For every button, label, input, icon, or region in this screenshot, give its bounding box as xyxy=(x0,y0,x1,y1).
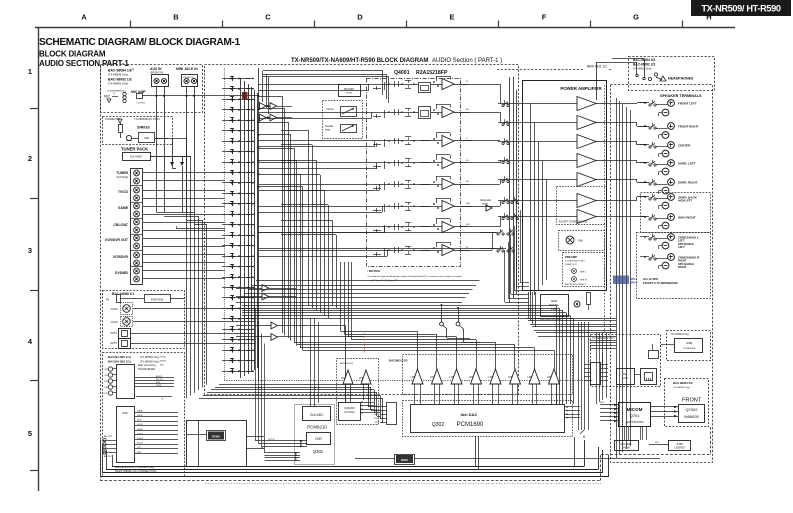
selector cell row 10 xyxy=(222,172,254,174)
selector cell row 6 xyxy=(222,130,254,132)
svg-text:EXCEPT TX-NR509/NA609: EXCEPT TX-NR509/NA609 xyxy=(559,221,588,224)
net wires xyxy=(590,340,616,342)
op-amp LPF ch3 xyxy=(451,369,462,384)
svg-text:SIRIUS: SIRIUS xyxy=(137,126,150,130)
svg-text:FE: FE xyxy=(106,298,110,302)
svg-text:5: 5 xyxy=(28,429,32,438)
power amp surround back dashed group xyxy=(557,187,607,225)
verticals into ADC xyxy=(310,318,312,407)
HDMI dashed box BAC 94-090 xyxy=(103,353,185,477)
ADC input wire rows xyxy=(255,309,257,442)
svg-text:DATA: DATA xyxy=(137,409,143,412)
svg-text:OPT2: OPT2 xyxy=(110,341,117,345)
power amp channel 3 xyxy=(577,135,596,149)
volume pot 2 xyxy=(341,125,357,133)
selector ID tag xyxy=(242,92,248,99)
buffer op-amps record out xyxy=(260,103,267,110)
op-amp Q4001 ch6 xyxy=(442,201,454,212)
svg-text:DSD1: DSD1 xyxy=(137,429,144,431)
svg-text:COAX: COAX xyxy=(111,307,119,311)
svg-text:F: F xyxy=(542,13,547,22)
power amplifier block xyxy=(523,81,607,291)
power amp channel 7 xyxy=(577,210,596,224)
op-amp Q4001 ch3 xyxy=(442,136,454,147)
BMF power box right dashed edge xyxy=(604,85,606,332)
svg-text:RST: RST xyxy=(137,452,142,454)
svg-text:TX-NR509/ HT-R590: TX-NR509/ HT-R590 xyxy=(701,4,781,14)
selector cell row 28 xyxy=(222,360,254,362)
svg-text:2ch x2 SPK: 2ch x2 SPK xyxy=(643,277,658,281)
svg-text:VOLUME: VOLUME xyxy=(621,442,632,446)
svg-text:MICOM: MICOM xyxy=(627,407,643,412)
micom left wires xyxy=(600,404,618,406)
svg-text:HIGH RIGHT: HIGH RIGHT xyxy=(678,216,696,220)
DAC right connector wires xyxy=(565,406,580,408)
svg-text:LED/KEY: LED/KEY xyxy=(675,446,686,450)
svg-text:TX-NR509/609 ONLY: TX-NR509/609 ONLY xyxy=(592,337,615,340)
selector cell row 21 xyxy=(222,287,254,289)
svg-text:Q7002: Q7002 xyxy=(685,407,698,412)
speaker feed wires xyxy=(607,103,637,105)
crystal box xyxy=(208,432,224,440)
op-amp LPF ch2 xyxy=(432,369,443,384)
secondary staircase lines into Q4001 xyxy=(259,90,370,92)
selector to Q4001 signal lines xyxy=(259,84,419,86)
svg-text:1/3: 1/3 xyxy=(130,68,135,72)
wires DAC to micom bus xyxy=(578,322,580,430)
selector cell row 7 xyxy=(222,141,254,143)
wire bus centre staircase second group xyxy=(308,130,310,306)
svg-text:AUDIO: AUDIO xyxy=(156,375,163,378)
speaker terminal SURR. LEFT xyxy=(668,160,675,167)
2ch ADC box xyxy=(303,407,331,421)
svg-text:REMO: REMO xyxy=(401,459,408,462)
volume pot 1 xyxy=(341,107,357,117)
svg-text:BAC(98084 1/4) (TX-NR509 Only): BAC(98084 1/4) (TX-NR509 Only) xyxy=(115,465,154,469)
op-amp Q4001 ch8 xyxy=(442,245,454,256)
svg-text:(Not Work): (Not Work) xyxy=(116,176,128,179)
op-amp LPF ch6 xyxy=(510,369,521,384)
input jacks DVD/BD xyxy=(134,268,140,274)
IC Q4001 R2A15218FP volume/selector xyxy=(367,79,461,267)
svg-text:PCM1690: PCM1690 xyxy=(457,422,484,428)
input selector switch matrix Q4001 input side xyxy=(224,68,226,380)
svg-text:MINI JACK IN: MINI JACK IN xyxy=(176,67,198,71)
vertical bundle left of selector feeding bottom bus xyxy=(186,138,188,398)
svg-text:KNOB: KNOB xyxy=(622,446,630,450)
svg-text:COAX: COAX xyxy=(111,320,119,324)
op-amp LPF zone L xyxy=(343,370,353,384)
input jacks TUNER xyxy=(134,170,140,176)
svg-text:AUDIO SECTION PART-1: AUDIO SECTION PART-1 xyxy=(39,59,129,68)
selector cell row 15 xyxy=(222,224,254,226)
svg-text:μPD70F3766: μPD70F3766 xyxy=(626,420,644,424)
outer dashed box left section xyxy=(100,65,102,481)
right vertical bus xyxy=(616,98,618,458)
optical digital jacks xyxy=(119,329,131,339)
input connector box BAC-98084 xyxy=(101,65,203,113)
svg-text:EAJ-9607: EAJ-9607 xyxy=(130,155,143,159)
antenna xyxy=(118,119,122,123)
svg-text:SURR. RIGHT: SURR. RIGHT xyxy=(678,181,698,185)
svg-text:M66005: M66005 xyxy=(684,414,699,419)
svg-text:BCK: BCK xyxy=(156,382,161,384)
selector cell row 24 xyxy=(222,318,254,320)
vertical bus right of switches xyxy=(509,77,511,302)
svg-text:SPEAKER TERMINALS: SPEAKER TERMINALS xyxy=(660,94,702,98)
output mute switches xyxy=(461,84,468,86)
zone long feed lines xyxy=(236,302,462,304)
wires to headphones xyxy=(612,58,644,60)
svg-text:PRE R: PRE R xyxy=(580,280,587,282)
selector cell row 3 xyxy=(222,99,254,101)
svg-text:TUNER: TUNER xyxy=(116,171,128,175)
speaker terminal FRONT RIGHT xyxy=(668,123,675,130)
wire bus bottom bundle B3 xyxy=(219,384,368,386)
svg-text:EVENT/DB: EVENT/DB xyxy=(151,299,163,302)
svg-text:ARC: ARC xyxy=(160,364,165,367)
svg-text:(TX-NR509 Only): (TX-NR509 Only) xyxy=(673,387,690,389)
svg-text:VCR/DVR: VCR/DVR xyxy=(113,255,129,259)
svg-text:AUX IN: AUX IN xyxy=(150,67,162,71)
svg-text:TUNER PACK: TUNER PACK xyxy=(121,147,148,152)
svg-text:GAME: GAME xyxy=(118,206,129,210)
PCM9210 dashed box xyxy=(295,405,335,465)
DAC left connector xyxy=(387,403,397,425)
zone record switches xyxy=(440,322,444,326)
svg-text:D: D xyxy=(357,13,363,22)
selector cell row 18 xyxy=(222,256,254,258)
svg-text:DIGITAL: DIGITAL xyxy=(549,303,559,307)
8ch DAC dashed box xyxy=(403,355,573,395)
selector cell row 23 xyxy=(222,308,254,310)
svg-text:R2A15218FP: R2A15218FP xyxy=(416,70,448,76)
svg-text:L/R 2/0: L/R 2/0 xyxy=(156,379,163,381)
headphones jack box xyxy=(629,57,715,91)
svg-text:SIR: SIR xyxy=(144,136,149,140)
dashed bus line bottom centre xyxy=(224,380,593,382)
standby led box xyxy=(669,441,691,451)
zone select switches lower xyxy=(497,233,499,235)
svg-text:G: G xyxy=(633,13,639,22)
svg-text:CONDENSER MIC: CONDENSER MIC xyxy=(107,91,126,93)
svg-text:BAC-94088 1/1: BAC-94088 1/1 xyxy=(112,292,134,296)
svg-text:OUTPUT: OUTPUT xyxy=(137,103,147,105)
svg-text:RIGHT: RIGHT xyxy=(678,265,687,269)
svg-text:(TX-NR509 Only): (TX-NR509 Only) xyxy=(671,334,689,336)
svg-text:FRONT RIGHT: FRONT RIGHT xyxy=(678,125,699,129)
svg-text:2ch ADC: 2ch ADC xyxy=(310,413,324,417)
DSP block connector xyxy=(117,407,135,463)
svg-text:(TX-NR509 Only): (TX-NR509 Only) xyxy=(108,82,128,86)
svg-text:HDMI1: HDMI1 xyxy=(160,357,167,359)
svg-text:TRANSCEIVER: TRANSCEIVER xyxy=(138,368,155,371)
input jacks GAME xyxy=(134,203,140,209)
svg-text:Center: Center xyxy=(326,107,334,111)
svg-text:Q4001: Q4001 xyxy=(394,70,410,76)
DIR box xyxy=(307,433,331,445)
front display box xyxy=(679,405,705,423)
micom bottom wires xyxy=(624,427,626,440)
svg-text:LRCK: LRCK xyxy=(156,385,162,387)
selector cell row 12 xyxy=(222,193,254,195)
svg-text:LEVEL: LEVEL xyxy=(346,93,354,95)
svg-text:VCR/DVR OUT: VCR/DVR OUT xyxy=(105,238,129,242)
2ch DAC pin rows xyxy=(360,402,374,404)
svg-text:LPF: LPF xyxy=(547,375,552,379)
2ch DAC Q304/Q305 dashed box xyxy=(337,359,379,425)
selector cell row 9 xyxy=(222,162,254,164)
svg-text:LEFT: LEFT xyxy=(678,245,685,249)
svg-text:B: B xyxy=(173,13,179,22)
selector cell row 13 xyxy=(222,203,254,205)
svg-text:DSD3: DSD3 xyxy=(137,438,144,440)
svg-text:IF AMP OUT: IF AMP OUT xyxy=(565,263,577,266)
svg-text:BCK: BCK xyxy=(137,420,142,422)
svg-text:BAC-98082 1/3: BAC-98082 1/3 xyxy=(108,78,132,82)
selector cell row 8 xyxy=(222,151,254,153)
svg-text:bass: bass xyxy=(325,128,331,132)
svg-text:Q304/Q5: Q304/Q5 xyxy=(344,406,355,410)
tuner pack wires xyxy=(172,138,174,168)
speaker terminal SURR. RIGHT xyxy=(668,179,675,186)
svg-text:2: 2 xyxy=(28,154,32,163)
svg-text:TX-NR509/A: TX-NR509/A xyxy=(683,347,696,350)
svg-text:PRE L: PRE L xyxy=(580,272,587,274)
coax digital jacks xyxy=(121,303,133,315)
svg-text:Net: Net xyxy=(623,372,627,376)
selector cell row 20 xyxy=(222,277,254,279)
dashed box bottom right jog xyxy=(600,455,602,481)
svg-text:BMF-9811 1/1: BMF-9811 1/1 xyxy=(587,65,607,69)
HDMI connector block xyxy=(117,365,135,399)
svg-text:TX-NR509/609 ONLY: TX-NR509/609 ONLY xyxy=(565,261,586,263)
svg-text:DVD/BD: DVD/BD xyxy=(115,271,129,275)
bus from speaker area down xyxy=(596,332,598,404)
input jacks VCR/DVR OUT xyxy=(134,235,140,241)
speaker terminal HIGH RIGHT xyxy=(668,214,675,221)
svg-text:BAC(94-092 1/1): BAC(94-092 1/1) xyxy=(108,360,131,364)
svg-text:E: E xyxy=(449,13,454,22)
svg-text:(FRONT R): (FRONT R) xyxy=(150,71,163,75)
svg-text:STBY: STBY xyxy=(677,442,684,446)
svg-text:LRCK: LRCK xyxy=(137,415,143,417)
svg-text:USB: USB xyxy=(686,341,692,345)
svg-text:AMP/: AMP/ xyxy=(551,299,558,303)
svg-text:A: A xyxy=(81,13,87,22)
border left rule xyxy=(38,28,40,492)
selector cell row 1 xyxy=(222,78,254,80)
outer dashed box centre section xyxy=(205,65,519,395)
wires dsp to adc xyxy=(246,436,264,438)
FRONT display dashed box xyxy=(665,379,709,427)
headphone level box xyxy=(339,85,361,97)
svg-text:LPF: LPF xyxy=(450,375,455,379)
svg-text:AB CNT: AB CNT xyxy=(104,435,113,438)
digital audio connector block xyxy=(591,363,601,385)
svg-text:(TX-NR509 Only): (TX-NR509 Only) xyxy=(108,73,128,77)
svg-text:MCLK: MCLK xyxy=(137,443,144,445)
svg-text:Q701: Q701 xyxy=(630,413,641,418)
grid ticks top xyxy=(130,21,132,29)
selector cell row 5 xyxy=(222,120,254,122)
svg-text:C: C xyxy=(265,13,271,22)
svg-text:KEY: KEY xyxy=(600,402,605,404)
selector cell row 22 xyxy=(222,297,254,299)
USB dashed box xyxy=(667,331,711,361)
buffer op-amps record pair upper xyxy=(262,285,269,292)
svg-text:PCM9210: PCM9210 xyxy=(307,425,327,430)
svg-text:SURR. LEFT: SURR. LEFT xyxy=(678,162,696,166)
remote sensor box 2 xyxy=(396,455,413,463)
svg-text:Double: Double xyxy=(325,124,334,128)
zone switches double xyxy=(502,201,504,203)
svg-text:OPT1: OPT1 xyxy=(110,331,117,335)
svg-text:1: 1 xyxy=(28,67,32,76)
op-amp Q4001 ch5 xyxy=(442,179,454,190)
svg-text:BLOCK DIAGRAM: BLOCK DIAGRAM xyxy=(39,50,106,59)
svg-text:AUDIO Section ( PART-1 ): AUDIO Section ( PART-1 ) xyxy=(432,58,502,64)
zone2 dashed subgroup xyxy=(637,233,711,299)
svg-text:HDMI2: HDMI2 xyxy=(160,361,167,363)
bus labels blue xyxy=(613,276,629,285)
svg-text:SPK B: SPK B xyxy=(630,282,638,285)
svg-text:LPF: LPF xyxy=(411,375,416,379)
svg-text:• Literally the edge and blind: • Literally the edge and blindesign sign… xyxy=(367,275,462,278)
power amp internal verticals xyxy=(530,104,532,296)
wire bus centre-left staircase xyxy=(282,96,284,333)
selector cell row 14 xyxy=(222,214,254,216)
svg-text:(TX-NR509 Only): (TX-NR509 Only) xyxy=(140,356,159,359)
svg-text:OPT IN: OPT IN xyxy=(268,439,275,441)
power amp channel 6 xyxy=(577,194,596,208)
speaker terminal ZONE2/HIGH L xyxy=(668,234,675,241)
DAC PCM1690 box xyxy=(411,405,565,433)
DAC ground wires to bottom bus xyxy=(475,436,477,467)
selector cell row 25 xyxy=(222,329,254,331)
bass management switch column xyxy=(502,104,504,106)
svg-text:BAC(94-090 1/1): BAC(94-090 1/1) xyxy=(108,355,131,359)
digital input box BAC-94088 xyxy=(103,291,185,349)
bus bend under Q4001 xyxy=(505,302,529,304)
Q4001 internal resistor ticks xyxy=(373,88,381,90)
svg-text:BAC/936 6(2): BAC/936 6(2) xyxy=(340,362,354,365)
2ch DAC box xyxy=(339,403,361,421)
op-amp LPF ch1 xyxy=(412,369,423,384)
svg-text:Q301: Q301 xyxy=(313,449,324,454)
svg-text:LPF: LPF xyxy=(469,375,474,379)
BMF-9811 dashed header xyxy=(497,69,584,71)
selector cell row 19 xyxy=(222,266,254,268)
svg-text:SCHEMATIC DIAGRAM/ BLOCK DIAGR: SCHEMATIC DIAGRAM/ BLOCK DIAGRAM-1 xyxy=(39,37,241,48)
volume cell 1 xyxy=(419,83,431,93)
svg-text:LPF: LPF xyxy=(508,375,513,379)
op-amp Q4001 ch1 xyxy=(442,79,454,90)
svg-text:USB: USB xyxy=(622,376,628,380)
svg-text:BAC/893 6 2/2: BAC/893 6 2/2 xyxy=(389,359,408,363)
op-amp LPF ch4 xyxy=(471,369,482,384)
SIRIUS module box xyxy=(103,117,173,145)
speaker terminals dashed box xyxy=(611,85,713,463)
MICOM box xyxy=(619,403,651,427)
svg-text:Bass processing: Bass processing xyxy=(138,364,156,367)
svg-text:SPI: SPI xyxy=(655,442,659,444)
AC inlet box xyxy=(541,295,569,317)
page title block xyxy=(691,0,791,16)
svg-text:PREAMP: PREAMP xyxy=(565,255,577,259)
svg-text:DIR: DIR xyxy=(315,437,322,441)
remote event box xyxy=(145,295,171,303)
input jacks TV/CD xyxy=(134,187,140,193)
micom to front wires xyxy=(651,406,678,408)
jack sirius xyxy=(126,135,131,140)
svg-text:• NOTICE: • NOTICE xyxy=(367,269,380,273)
selector cell row 27 xyxy=(222,350,254,352)
svg-text:SW: SW xyxy=(578,239,583,243)
selector cell row 17 xyxy=(222,245,254,247)
svg-text:TX-NR509/TX-NA609/HT-R590 BLOC: TX-NR509/TX-NA609/HT-R590 BLOCK DIAGRAM xyxy=(291,58,428,64)
headphone jack xyxy=(648,77,651,80)
border top rule xyxy=(35,27,735,29)
svg-text:PWR: PWR xyxy=(551,307,557,311)
svg-text:LPF: LPF xyxy=(430,375,435,379)
svg-text:TV/CD: TV/CD xyxy=(118,190,129,194)
record out top lines xyxy=(263,70,383,72)
svg-text:FR: FR xyxy=(466,109,469,111)
NET module box xyxy=(617,369,635,385)
input jacks VCR/DVR xyxy=(134,252,140,258)
op-amp Q4001 ch7 xyxy=(442,222,454,233)
analog input jack strip xyxy=(131,169,143,285)
svg-text:CBL/SAT: CBL/SAT xyxy=(114,223,129,227)
input jacks CBL/SAT xyxy=(134,219,140,225)
wire bus mid bundle B1 xyxy=(242,305,556,307)
power amp channel 1 xyxy=(577,97,596,111)
wire bus LPF feed bundle B2 xyxy=(340,262,342,332)
resistor sirius xyxy=(119,125,123,133)
svg-text:Q302: Q302 xyxy=(432,422,444,428)
diode arrows xyxy=(170,162,174,166)
op-amp LPF ch7 xyxy=(529,369,540,384)
USB board box xyxy=(675,339,703,353)
preamp out box xyxy=(563,253,605,287)
svg-text:5: 5 xyxy=(583,435,585,439)
svg-text:DSD2: DSD2 xyxy=(137,433,144,435)
svg-text:FRONT LEFT: FRONT LEFT xyxy=(678,102,697,106)
buffer op-amps zone line out xyxy=(271,322,278,329)
SIR tuner box xyxy=(139,133,155,143)
svg-text:3: 3 xyxy=(28,246,32,255)
aux input vertical wires xyxy=(156,87,158,213)
svg-text:DSP: DSP xyxy=(122,411,128,415)
svg-text:HIGH LEFT: HIGH LEFT xyxy=(678,199,693,203)
svg-text:2ch DAC: 2ch DAC xyxy=(344,410,355,414)
svg-text:BAC-98084 1/3: BAC-98084 1/3 xyxy=(108,69,132,73)
ethernet jack xyxy=(641,369,657,385)
svg-text:HEADPHONES: HEADPHONES xyxy=(668,77,694,81)
DSP main box xyxy=(187,421,247,467)
op-amp LPF zone R xyxy=(361,370,371,384)
power amp channel 2 xyxy=(577,116,596,130)
svg-text:(TX-NR509 Only): (TX-NR509 Only) xyxy=(633,68,652,71)
speaker terminal FRONT LEFT xyxy=(668,100,675,107)
svg-text:SR: SR xyxy=(466,181,469,183)
speaker terminal CENTER xyxy=(668,142,675,149)
svg-text:SCLK: SCLK xyxy=(137,424,143,426)
op-amp Q4001 ch4 xyxy=(442,158,454,169)
op-amp LPF ch8 xyxy=(549,369,560,384)
power amp channel 5 xyxy=(577,173,596,187)
